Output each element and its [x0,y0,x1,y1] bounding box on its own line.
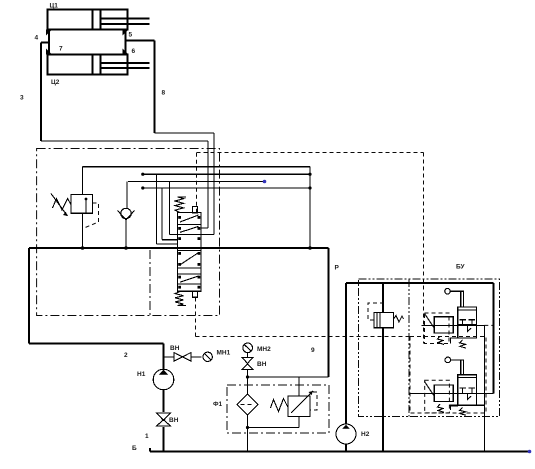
cylinder C1 [48,10,150,30]
svg-text:БУ: БУ [456,264,466,271]
P rail [29,247,329,249]
svg-text:Н1: Н1 [137,371,146,378]
shutoff valve VN (MN1) [174,353,202,362]
rail A tank [83,166,311,168]
BU return line [483,325,485,451]
rail D [141,186,310,189]
shutoff valve VN below pump [157,390,171,452]
upper pilot assembly [422,288,493,348]
manifold outer box [37,149,220,316]
manifold partition [149,250,151,316]
main directional valve R1 [178,213,201,292]
svg-text:Р: Р [335,265,340,272]
shutoff valve VN (MN2) [242,358,253,394]
svg-text:5: 5 [129,32,133,39]
node junction verticals at x310 [308,167,312,250]
dashed box [425,313,450,344]
reducing valve left [434,317,453,333]
spring below [460,340,467,348]
svg-text:4: 4 [35,35,39,42]
lower pilot assembly [410,337,494,416]
gauge MN1 [203,352,212,361]
valve bottom spring [175,292,186,306]
svg-text:6: 6 [132,48,136,55]
return drop from P rail [328,248,330,377]
filter box [227,385,329,433]
svg-text:ВН: ВН [169,417,179,424]
wire railD to valve left port [162,188,178,240]
gauge MN2 [243,343,253,357]
return crossover [246,375,329,378]
svg-text:Ц1: Ц1 [50,3,59,10]
check valve [118,182,135,249]
wire railC to valve left port [170,182,178,235]
svg-text:7: 7 [59,46,63,53]
wire right cylinder ports [123,30,155,55]
svg-text:МН1: МН1 [217,350,231,357]
roller [445,288,451,294]
gauge branch MN1 [164,356,175,358]
relief valve KP1 [51,167,99,248]
BU control block box [359,279,500,417]
pilot line bottom [196,298,411,394]
rail B [141,173,310,176]
svg-text:Н2: Н2 [361,431,370,438]
wire railB to valve left port [156,174,177,244]
node 8 wire down [154,41,156,134]
valve bottom pilot stub [193,291,198,297]
pump H2 [336,424,356,452]
BU partition [408,279,410,417]
wire left cylinder ports [41,30,52,55]
BU supply rail [346,283,494,393]
BU relief valve [368,283,404,452]
valve top spring [175,197,186,213]
svg-text:3: 3 [20,95,24,102]
svg-text:ВН: ВН [257,361,267,368]
node 4 wire down [40,43,42,142]
wire line4 to valve right port [41,141,208,228]
svg-text:ВН: ВН [170,345,180,352]
tank rail [150,448,531,453]
svg-text:2: 2 [124,352,128,359]
svg-text:8: 8 [162,90,166,97]
svg-text:1: 1 [145,433,149,440]
svg-text:9: 9 [311,347,315,354]
pump H1 [153,369,174,390]
svg-text:Ц2: Ц2 [51,79,60,86]
valve top pilot stub [193,207,198,213]
pilot valve body [458,307,477,338]
pump riser line 2 [29,248,164,369]
rail C [128,180,266,184]
svg-text:МН2: МН2 [257,346,271,353]
wire line8 to valve right port [155,133,215,235]
filter F1 [237,394,258,452]
svg-text:Ф1: Ф1 [213,401,223,408]
svg-text:Б: Б [132,445,137,452]
bypass valve [248,377,318,428]
pump H2 riser [345,283,347,424]
pilot box dashed top [197,153,424,344]
cross line [422,324,485,326]
cylinder C2 [48,55,150,75]
